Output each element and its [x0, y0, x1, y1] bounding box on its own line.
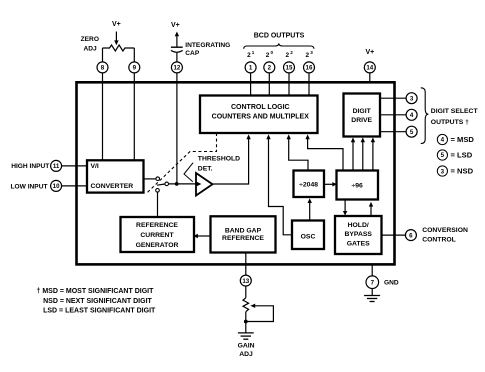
svg-text:V+: V+ — [112, 21, 121, 28]
svg-text:THRESHOLD: THRESHOLD — [198, 156, 240, 163]
svg-text:GENERATOR: GENERATOR — [136, 242, 179, 249]
svg-text:† MSD = MOST SIGNIFICANT DIGIT: † MSD = MOST SIGNIFICANT DIGIT — [37, 288, 155, 295]
svg-text:3: 3 — [441, 169, 445, 176]
svg-text:2: 2 — [268, 65, 272, 72]
svg-text:ADJ: ADJ — [239, 351, 253, 358]
svg-text:COUNTERS AND MULTIPLEX: COUNTERS AND MULTIPLEX — [212, 114, 310, 121]
svg-text:V/I: V/I — [91, 163, 99, 170]
svg-text:= NSD: = NSD — [451, 166, 474, 175]
svg-text:HIGH INPUT: HIGH INPUT — [11, 163, 49, 170]
svg-text:CONVERSION: CONVERSION — [422, 227, 468, 234]
svg-text:13: 13 — [242, 278, 249, 285]
svg-text:DRIVE: DRIVE — [351, 117, 372, 124]
svg-text:LSD = LEAST SIGNIFICANT DIGIT: LSD = LEAST SIGNIFICANT DIGIT — [43, 307, 156, 314]
svg-text:2: 2 — [285, 52, 289, 59]
svg-text:GND: GND — [384, 279, 399, 286]
svg-text:OSC: OSC — [301, 234, 316, 241]
svg-text:LOW INPUT: LOW INPUT — [11, 183, 48, 190]
svg-text:1: 1 — [249, 65, 253, 72]
svg-text:2: 2 — [247, 52, 251, 59]
svg-text:16: 16 — [306, 65, 313, 72]
svg-text:DIGIT SELECT: DIGIT SELECT — [431, 108, 479, 115]
svg-text:BAND GAP: BAND GAP — [225, 227, 262, 234]
svg-text:3: 3 — [410, 96, 414, 103]
svg-text:5: 5 — [410, 129, 414, 136]
svg-text:7: 7 — [371, 280, 375, 287]
svg-text:14: 14 — [366, 65, 373, 72]
svg-text:12: 12 — [173, 65, 180, 72]
svg-text:GATES: GATES — [347, 241, 370, 248]
svg-text:= MSD: = MSD — [451, 135, 475, 144]
svg-text:CONTROL: CONTROL — [422, 237, 456, 244]
svg-text:6: 6 — [409, 232, 413, 239]
svg-text:V+: V+ — [171, 22, 180, 29]
svg-text:BCD OUTPUTS: BCD OUTPUTS — [254, 32, 305, 39]
svg-text:REFERENCE: REFERENCE — [136, 222, 178, 229]
svg-text:CONTROL LOGIC: CONTROL LOGIC — [231, 104, 290, 111]
svg-text:÷2048: ÷2048 — [299, 182, 318, 189]
svg-text:OUTPUTS †: OUTPUTS † — [431, 119, 469, 126]
svg-text:ADJ: ADJ — [83, 45, 97, 52]
svg-text:V+: V+ — [366, 49, 375, 56]
svg-text:2: 2 — [290, 50, 293, 55]
svg-text:= LSD: = LSD — [451, 150, 473, 159]
svg-text:GAIN: GAIN — [238, 342, 255, 349]
svg-text:10: 10 — [53, 183, 60, 190]
svg-text:DIGIT: DIGIT — [353, 108, 372, 115]
svg-text:11: 11 — [53, 163, 60, 170]
svg-text:3: 3 — [310, 50, 313, 55]
svg-text:4: 4 — [410, 112, 414, 119]
svg-text:HOLD/: HOLD/ — [348, 222, 369, 229]
svg-text:INTEGRATING: INTEGRATING — [185, 42, 230, 49]
svg-text:DET.: DET. — [198, 165, 213, 172]
svg-text:NSD = NEXT SIGNIFICANT DIGIT: NSD = NEXT SIGNIFICANT DIGIT — [43, 298, 152, 305]
svg-text:8: 8 — [101, 65, 105, 72]
svg-text:2: 2 — [305, 52, 309, 59]
svg-text:REFERENCE: REFERENCE — [222, 235, 264, 242]
svg-text:ZERO: ZERO — [81, 36, 99, 43]
svg-text:CAP: CAP — [185, 50, 200, 57]
svg-text:5: 5 — [441, 152, 445, 159]
svg-text:15: 15 — [286, 65, 293, 72]
svg-text:2: 2 — [266, 52, 270, 59]
svg-text:÷96: ÷96 — [352, 183, 364, 190]
svg-text:9: 9 — [133, 65, 137, 72]
svg-text:1: 1 — [252, 50, 255, 55]
svg-text:CURRENT: CURRENT — [140, 232, 174, 239]
svg-text:4: 4 — [441, 137, 445, 144]
svg-text:0: 0 — [271, 50, 274, 55]
svg-text:BYPASS: BYPASS — [344, 231, 372, 238]
svg-text:CONVERTER: CONVERTER — [91, 183, 134, 190]
